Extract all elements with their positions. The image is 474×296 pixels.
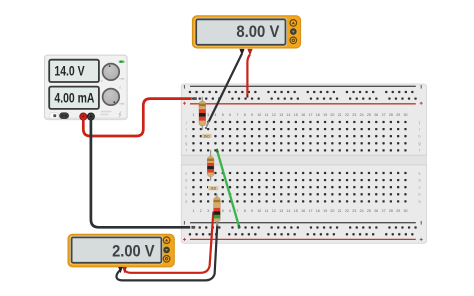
wire PSU positive to breadboard top rail (red) [83,99,197,136]
PS1 negative terminal [87,113,94,120]
M2 red probe wire to R3 top area [125,212,214,273]
svg-text:h: h [419,135,421,139]
PS1 brand text [101,111,121,117]
svg-text:29: 29 [396,113,400,117]
svg-text:13: 13 [279,209,283,213]
svg-text:9: 9 [251,113,253,117]
M2 black probe wire to R3 bottom [117,221,218,280]
svg-text:j: j [418,120,420,124]
row letters right [418,120,421,203]
svg-text:17: 17 [309,209,313,213]
resistor R2 1k ohm [207,150,214,181]
PS1 mode button [59,112,69,119]
bottom negative rail line [184,221,421,225]
svg-text:8.00 V: 8.00 V [236,22,280,41]
svg-text:11: 11 [265,113,269,117]
svg-text:27: 27 [382,209,386,213]
svg-text:20: 20 [330,209,334,213]
svg-text:14: 14 [287,209,291,213]
svg-text:5: 5 [222,113,224,117]
svg-text:3: 3 [207,209,209,213]
svg-text:24: 24 [360,209,364,213]
svg-text:10: 10 [257,113,261,117]
bottom positive rail line [183,238,423,241]
M1 up button [290,20,297,27]
svg-text:e: e [419,171,421,175]
svg-text:b: b [185,193,187,197]
svg-text:h: h [185,135,187,139]
M2 down button [163,255,170,262]
svg-text:1: 1 [193,113,195,117]
svg-text:30: 30 [404,113,408,117]
svg-text:7: 7 [236,113,238,117]
M1 red probe plug [247,49,252,56]
green jumper wire row j col4 to bottom rail [217,149,240,229]
svg-text:16: 16 [301,209,305,213]
PS1 current display 4.00 mA [49,87,99,109]
svg-text:29: 29 [396,209,400,213]
svg-text:f: f [186,149,187,153]
svg-text:28: 28 [389,209,393,213]
svg-text:2kΩ: 2kΩ [204,134,211,138]
svg-text:5: 5 [222,209,224,213]
column numbers bottom [193,209,408,213]
svg-text:2.00 V: 2.00 V [112,241,155,260]
svg-text:a: a [185,200,187,204]
svg-text:21: 21 [338,113,342,117]
PS1 power LED [119,60,125,63]
svg-text:d: d [185,178,187,182]
power supply PS1 [45,55,128,120]
svg-text:e: e [185,171,187,175]
svg-text:28: 28 [389,113,393,117]
svg-text:13: 13 [279,113,283,117]
wire PSU negative to breadboard bottom rail (black) [91,117,195,227]
svg-text:21: 21 [338,209,342,213]
svg-text:j: j [185,120,187,124]
top negative rail line [184,85,421,89]
svg-text:14.0 V: 14.0 V [54,64,84,79]
svg-text:22: 22 [345,209,349,213]
svg-text:17: 17 [309,113,313,117]
svg-text:6: 6 [229,209,231,213]
svg-text:8: 8 [244,209,246,213]
svg-text:25: 25 [367,209,371,213]
svg-text:6: 6 [229,113,231,117]
svg-text:3: 3 [207,113,209,117]
svg-text:23: 23 [352,209,356,213]
svg-text:18: 18 [316,113,320,117]
M1 black probe plug [239,49,244,56]
M1 down button [290,37,297,44]
M1 red probe wire to top rail [247,55,250,98]
multimeter M1 body [192,16,300,48]
svg-text:19: 19 [323,209,327,213]
svg-text:12: 12 [272,113,276,117]
svg-text:2: 2 [200,209,202,213]
row letters left [185,120,188,203]
resistor R1 2k ohm [199,97,206,130]
svg-text:23: 23 [352,113,356,117]
svg-text:26: 26 [374,113,378,117]
svg-text:25: 25 [367,113,371,117]
svg-text:30: 30 [404,209,408,213]
resistor R1 value label [202,134,212,139]
column numbers top [193,113,408,117]
svg-text:g: g [419,142,421,146]
svg-text:a: a [419,200,421,204]
svg-text:26: 26 [374,209,378,213]
top rail holes [189,91,417,100]
PS1 power switch [49,113,59,119]
svg-text:c: c [185,186,187,190]
M2 up button [163,237,170,244]
svg-text:max: max [120,103,126,106]
svg-text:15: 15 [294,113,298,117]
svg-text:22: 22 [345,113,349,117]
multimeter M2 body [68,234,174,267]
svg-text:b: b [419,193,421,197]
svg-text:14: 14 [287,113,291,117]
svg-text:20: 20 [330,113,334,117]
svg-text:1: 1 [193,209,195,213]
PS1 voltage knob [101,64,125,83]
svg-text:16: 16 [301,113,305,117]
svg-text:24: 24 [360,113,364,117]
resistor R3 500 ohm [214,194,221,227]
svg-text:4.00 mA: 4.00 mA [54,90,94,105]
svg-text:19: 19 [323,113,327,117]
svg-text:g: g [185,142,187,146]
svg-text:15: 15 [294,209,298,213]
svg-text:1kΩ: 1kΩ [210,187,217,191]
svg-text:7: 7 [236,209,238,213]
svg-text:9: 9 [251,209,253,213]
PS1 positive terminal [80,113,87,120]
svg-text:11: 11 [265,209,269,213]
svg-text:c: c [419,186,421,190]
M2 black probe plug [118,267,123,273]
svg-text:4: 4 [214,113,216,117]
M1 mode button [290,28,297,35]
M1 black probe wire to R1 bottom [205,54,242,130]
svg-text:18: 18 [316,209,320,213]
svg-text:12: 12 [272,209,276,213]
bottom rail holes [189,226,417,235]
resistor R2 value label [208,186,219,191]
svg-text:d: d [419,178,421,182]
M1 display 8.00 V [195,18,286,46]
M2 mode button [163,247,170,254]
M2 display 2.00 V [71,236,163,263]
svg-text:max: max [120,78,126,81]
svg-text:10: 10 [257,209,261,213]
svg-text:f: f [419,149,420,153]
svg-text:27: 27 [382,113,386,117]
PS1 current knob [103,86,126,106]
svg-text:8: 8 [244,113,246,117]
breadboard [181,84,426,243]
top positive rail line [183,102,423,105]
M2 red probe plug [122,267,127,274]
PS1 voltage display 14.0 V [49,60,99,82]
main grid holes [192,121,406,203]
